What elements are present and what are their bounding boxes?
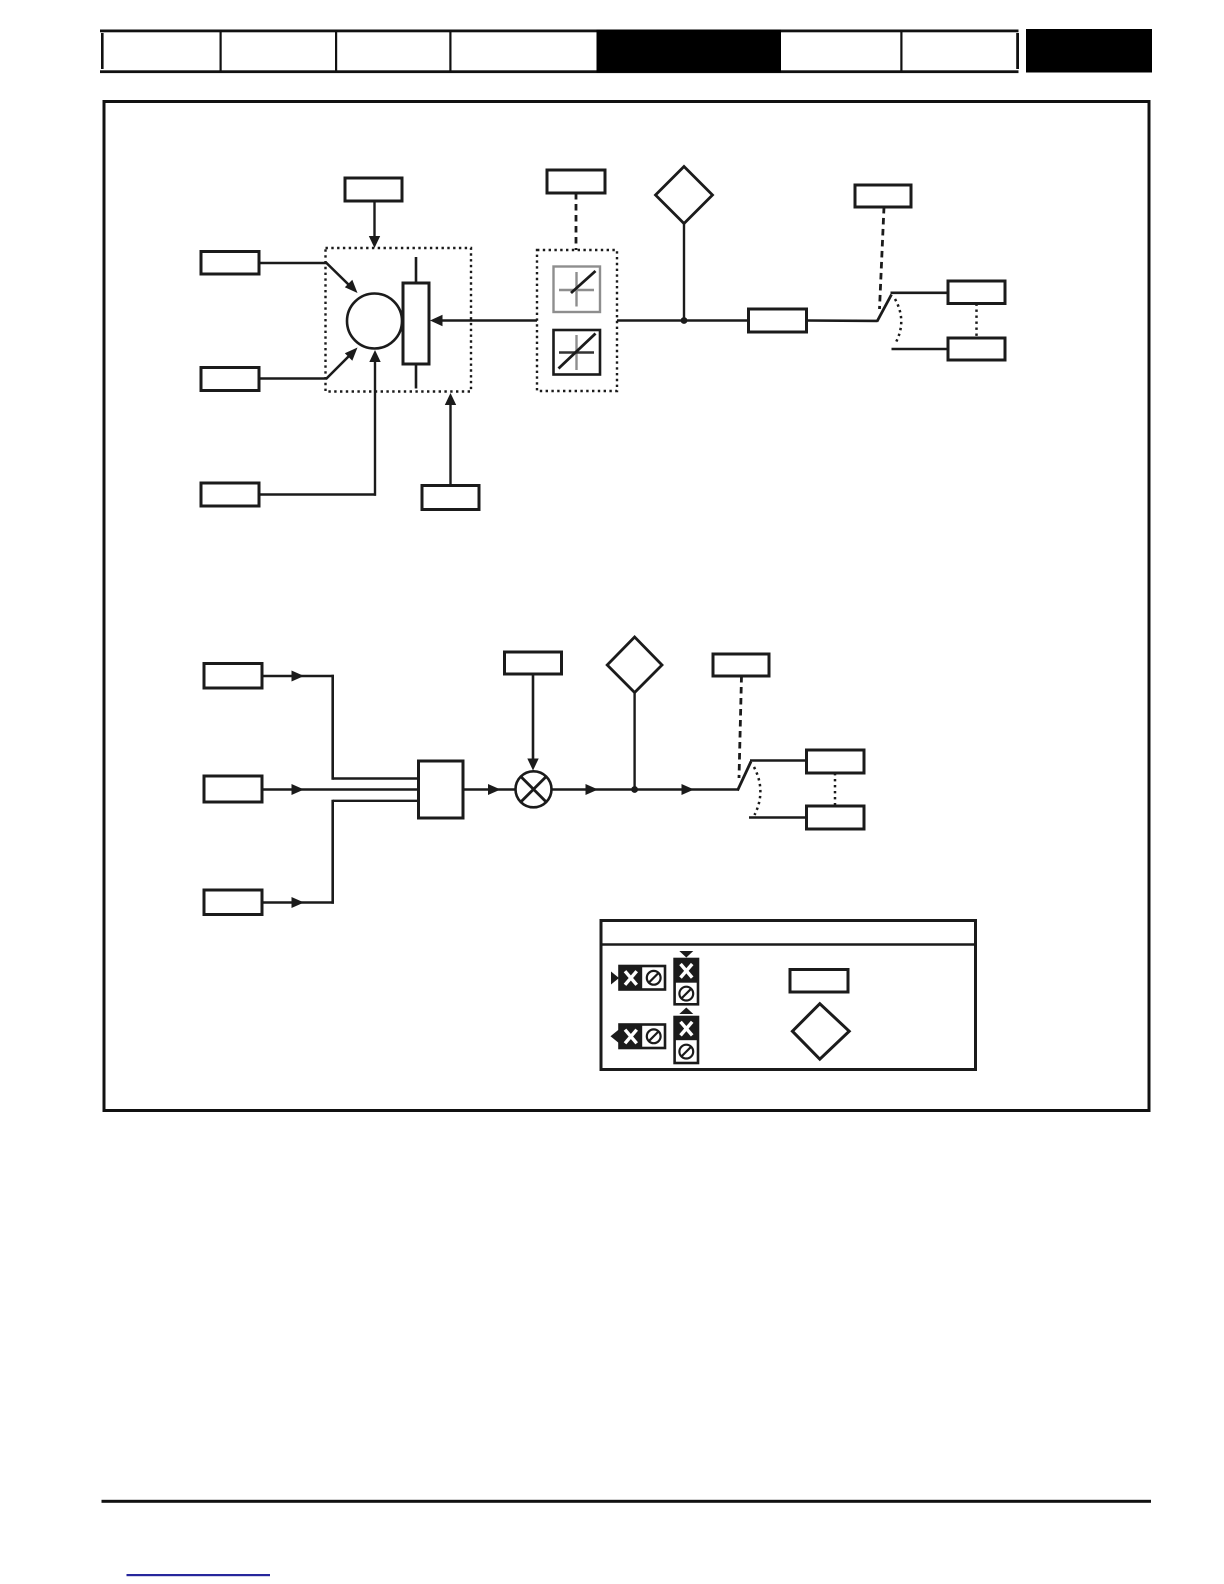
D1 left label L1 (201, 252, 259, 275)
D1 wire map block to junction to box B4 (617, 319, 748, 321)
D1 summing circle (347, 294, 402, 349)
D2 dotted switch travel arc (754, 767, 760, 815)
D1 top label B3 (547, 170, 605, 193)
D1 bottom label B2 (422, 486, 479, 510)
D2 left label L5 (204, 776, 262, 802)
D1 dotted map block (537, 250, 617, 391)
D1 dashed line B5 to switch pivot (880, 207, 885, 309)
main diagram frame (104, 102, 1149, 1111)
legend row2 vertical cell pair (675, 1017, 698, 1063)
D2 right label B11 (807, 750, 865, 773)
D1 junction dot (681, 317, 688, 324)
legend sample rectangle (790, 970, 848, 993)
D1 dotted control block (326, 248, 472, 392)
D1 lower map square (554, 330, 601, 375)
D2 multiplier circle (516, 771, 552, 807)
D2 junction dot (631, 786, 638, 793)
legend row2 up triangle (679, 1008, 693, 1015)
D2 wire L4 right then arrowhead (262, 671, 334, 682)
header column divider 3 (449, 30, 451, 72)
D2 top label B9 (505, 652, 562, 674)
legend outer box (601, 921, 976, 1070)
D1 right label B6 (948, 281, 1005, 304)
D2 diamond marker (607, 637, 662, 790)
D2 dashed line B10 to switch pivot (739, 676, 742, 778)
D2 right label B12 (807, 806, 865, 829)
D1 dotted switch travel arc (895, 299, 901, 344)
D2 bus line 3 (333, 800, 419, 802)
header table outer bottom rule (100, 70, 1019, 73)
header table outer top rule (100, 30, 1019, 33)
legend row1 right-pointing triangle (611, 972, 619, 985)
D2 switch upper contact wire (750, 759, 807, 762)
D2 vertical bus wire upper (331, 675, 334, 780)
D1 top label B5 (855, 185, 911, 207)
D1 right label B7 (948, 338, 1005, 360)
header column divider 4 (900, 30, 902, 72)
D1 wire map block to actuator with left arrowhead (430, 315, 537, 326)
D1 wire L1 to summing circle (259, 263, 358, 294)
D2 vertical bus wire lower (331, 800, 334, 904)
D2 top label B10 (713, 654, 769, 676)
D2 left label L4 (204, 664, 262, 689)
footer link underline (127, 1574, 271, 1576)
D2 arrow B9 down into multiplier (527, 674, 538, 771)
D1 switch upper contact wire (891, 291, 949, 294)
D2 bus line 1 (333, 777, 419, 779)
header table right edge (1016, 33, 1019, 69)
D2 processing box B8 (419, 761, 464, 818)
legend header rule (600, 943, 976, 946)
D1 box B4 (749, 309, 807, 332)
header black cell (597, 30, 782, 73)
footer rule (102, 1500, 1152, 1503)
D2 left label L6 (204, 890, 262, 915)
header right black box (1026, 29, 1152, 73)
D2 dotted link between B11 and B12 (834, 773, 837, 806)
D1 left label L2 (201, 368, 259, 391)
D2 wire L6 right then arrowhead (262, 897, 334, 908)
D1 wire L2 to summing circle (259, 348, 358, 380)
D1 upper map square (554, 267, 601, 313)
legend row2 horizontal cell pair (620, 1025, 666, 1049)
D1 left label L3 (201, 483, 259, 506)
D1 arrow B2 up to control block (445, 393, 456, 486)
D1 switch lower contact wire (892, 348, 949, 351)
D1 dashed line B3 to map block (575, 193, 578, 250)
header column divider 2 (335, 30, 337, 72)
D2 switch lower contact wire (749, 816, 807, 819)
D1 actuator rectangle (403, 257, 429, 389)
legend row1 horizontal cell pair (620, 966, 666, 990)
D2 bus line 2 with arrowhead (262, 784, 419, 795)
D1 arrow B1 to control block (369, 201, 380, 248)
D1 dotted link between B6 and B7 (975, 304, 978, 339)
D1 top label box B1 (345, 178, 402, 201)
D2 wire B8 to multiplier with arrowhead (463, 784, 516, 795)
D2 output wire multiplier to switch (552, 784, 739, 795)
D1 switch lever (877, 295, 892, 322)
D1 wire L3 up into circle bottom (259, 350, 381, 496)
header table left edge (101, 33, 104, 69)
legend row1 down triangle (679, 951, 693, 958)
legend row2 left-pointing triangle (611, 1030, 619, 1043)
D1 diamond marker (656, 167, 713, 321)
legend row1 vertical cell pair (675, 959, 698, 1004)
legend sample diamond (792, 1004, 849, 1059)
D2 switch lever (738, 762, 752, 791)
header column divider 1 (220, 30, 222, 72)
D1 wire B4 to switch (807, 319, 878, 322)
